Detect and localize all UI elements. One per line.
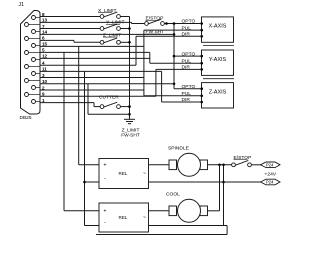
svg-text:J1: J1 — [19, 2, 25, 8]
svg-text:~: ~ — [143, 215, 146, 221]
svg-text:-: - — [104, 176, 106, 182]
svg-text:Z-AXIS: Z-AXIS — [209, 89, 227, 95]
svg-text:CUTTER: CUTTER — [99, 95, 119, 101]
svg-text:E/STOP: E/STOP — [146, 16, 164, 22]
svg-text:COOL: COOL — [166, 192, 180, 198]
svg-text:SPINDLE: SPINDLE — [168, 146, 190, 152]
svg-text:+: + — [104, 162, 107, 168]
svg-text:REL: REL — [119, 215, 128, 220]
svg-text:-: - — [104, 220, 106, 226]
svg-text:+24V: +24V — [265, 171, 277, 177]
svg-text:X-AXIS: X-AXIS — [209, 24, 227, 30]
svg-text:REL: REL — [119, 171, 128, 176]
svg-text:P24: P24 — [266, 162, 274, 167]
svg-text:FW-SHT: FW-SHT — [121, 133, 140, 139]
svg-text:+: + — [104, 208, 107, 214]
svg-text:Y-AXIS: Y-AXIS — [209, 57, 227, 63]
svg-text:DB25: DB25 — [20, 115, 32, 121]
svg-text:P24: P24 — [266, 180, 274, 185]
svg-text:~: ~ — [143, 171, 146, 177]
